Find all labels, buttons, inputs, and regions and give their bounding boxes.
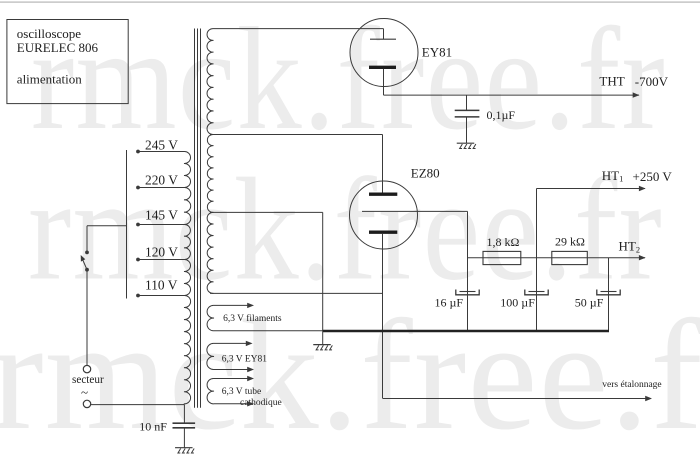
svg-text:120 V: 120 V: [145, 245, 178, 260]
svg-text:EURELEC 806: EURELEC 806: [17, 40, 99, 55]
svg-text:6,3 V tube: 6,3 V tube: [222, 387, 262, 397]
svg-text:6,3 V filaments: 6,3 V filaments: [223, 313, 282, 324]
svg-text:16 µF: 16 µF: [435, 296, 464, 310]
svg-text:EY81: EY81: [422, 44, 452, 59]
svg-text:~: ~: [81, 385, 88, 400]
svg-text:1,8 kΩ: 1,8 kΩ: [487, 235, 520, 249]
svg-text:29 kΩ: 29 kΩ: [555, 235, 585, 249]
svg-text:oscilloscope: oscilloscope: [17, 26, 81, 41]
svg-text:245 V: 245 V: [145, 137, 178, 152]
svg-text:110 V: 110 V: [145, 277, 178, 292]
svg-text:THT: THT: [599, 74, 624, 89]
svg-text:100 µF: 100 µF: [500, 296, 535, 310]
svg-text:rmck.free.fr: rmck.free.fr: [31, 0, 666, 161]
svg-text:145 V: 145 V: [145, 208, 178, 223]
svg-text:vers étalonnage: vers étalonnage: [602, 380, 661, 390]
svg-text:220 V: 220 V: [145, 172, 178, 187]
svg-text:EZ80: EZ80: [411, 165, 440, 180]
svg-text:6,3 V EY81: 6,3 V EY81: [222, 355, 268, 365]
svg-text:cathodique: cathodique: [240, 398, 282, 408]
svg-text:10 nF: 10 nF: [139, 419, 167, 433]
svg-text:-700V: -700V: [635, 74, 669, 89]
svg-text:rmck.free.fr: rmck.free.fr: [0, 288, 700, 463]
svg-text:rmck.free.fr: rmck.free.fr: [28, 148, 663, 311]
svg-text:+250 V: +250 V: [633, 169, 673, 184]
svg-text:0,1µF: 0,1µF: [487, 108, 516, 122]
svg-text:50 µF: 50 µF: [575, 296, 604, 310]
svg-text:alimentation: alimentation: [17, 72, 82, 87]
